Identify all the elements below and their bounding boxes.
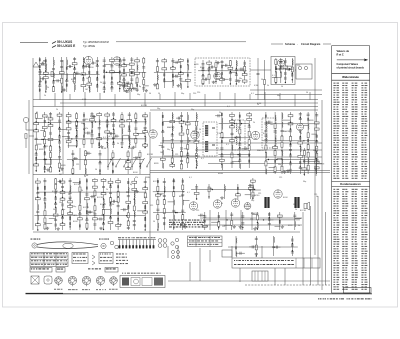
resistor R205.8 [265, 161, 267, 166]
svg-text:EL84: EL84 [133, 172, 137, 174]
svg-text:Typ 1959/56W/UKW/FM: Typ 1959/56W/UKW/FM [83, 41, 109, 44]
capacitor C101.17x [57, 79, 58, 82]
capacitor C102.34h [137, 84, 138, 87]
capacitor C205.37 [299, 124, 302, 125]
capacitor C201.31h [59, 141, 60, 144]
capacitor C207.9h [99, 169, 100, 172]
capacitor C205.28h [290, 129, 291, 132]
capacitor C104.6 [208, 69, 211, 70]
capacitor C101.12x [42, 62, 43, 65]
capacitor C205.34h [290, 169, 291, 172]
wire [134, 191, 139, 193]
capacitor C201.7h [36, 158, 37, 161]
IF transformer dashed box 1 [203, 122, 217, 156]
resistor R301.58 [86, 223, 88, 228]
capacitor C204.17 [231, 162, 234, 163]
svg-text:50: 50 [84, 176, 86, 178]
inductor L301.5 [37, 205, 40, 210]
wire [307, 112, 309, 174]
capacitor C103.20h [187, 74, 188, 77]
wire [273, 236, 275, 256]
svg-text:30p: 30p [72, 81, 75, 83]
wire [173, 178, 175, 230]
capacitor C301.19h [55, 191, 56, 194]
inductor L204.21 [239, 136, 242, 141]
IF coil 2a [236, 123, 237, 132]
wire [133, 178, 135, 230]
capacitor C301.106x [136, 190, 137, 193]
inductor L202.40 [113, 129, 116, 134]
wire [301, 124, 308, 126]
wire [218, 212, 220, 230]
resistor R302.6 [157, 215, 159, 220]
wire [39, 92, 41, 100]
capacitor C305.6 [255, 253, 258, 254]
capacitor C301.91h [128, 181, 129, 184]
resistor R301.29h [60, 198, 65, 200]
wire [195, 149, 322, 151]
inductor L301.104 [133, 212, 136, 217]
ground [60, 167, 64, 170]
svg-text:10n: 10n [62, 209, 65, 211]
capacitor C202.11 [75, 137, 78, 138]
capacitor C205.16h [275, 160, 276, 163]
svg-text:30p: 30p [137, 94, 140, 96]
resistor R102.36 [143, 58, 145, 63]
svg-text:125: 125 [279, 177, 282, 179]
wire [234, 136, 239, 138]
resistor R204.28h [247, 118, 252, 120]
tube V7 EF89 [191, 131, 199, 139]
wire [39, 74, 100, 76]
svg-text:EF89: EF89 [309, 120, 314, 122]
inductor L101.23 [66, 60, 69, 65]
resistor R204.14h [230, 140, 235, 142]
wire [279, 93, 281, 100]
IF transformer dashed box 3 [262, 118, 276, 148]
capacitor C202.42x [116, 135, 117, 138]
capacitor C103.14h [180, 65, 181, 68]
capacitor C301.64 [93, 214, 96, 215]
svg-text:50: 50 [281, 86, 283, 88]
resistor R202.58h [134, 133, 139, 135]
svg-text:ECC85: ECC85 [97, 197, 103, 199]
wire [53, 57, 55, 92]
resistor R301.59h [93, 179, 98, 181]
capacitor C301.66x [92, 195, 93, 198]
capacitor C202.53h [129, 136, 130, 139]
wire vertical x315 [314, 58, 316, 255]
bus line AGC double [150, 170, 330, 172]
svg-text:5k: 5k [210, 188, 212, 190]
idler wheels [110, 241, 114, 245]
resistor R102.39 [143, 80, 145, 85]
IF coil 2b [236, 136, 237, 145]
capacitor C301.57 [85, 219, 88, 220]
wire [174, 92, 176, 106]
wire [172, 58, 174, 88]
wire [252, 178, 254, 200]
capacitor C102.4h [104, 75, 105, 78]
resistor R205.55h [314, 122, 319, 124]
wire [131, 148, 133, 170]
capacitor C202.30h [99, 143, 100, 146]
capacitor C201.18 [49, 114, 52, 115]
wire [85, 152, 91, 154]
IF transformer dashed box 2 [232, 120, 245, 150]
resistor R301.69h [101, 193, 106, 195]
ground [128, 87, 132, 90]
svg-text:ECC85: ECC85 [141, 105, 147, 107]
capacitor C204.34x [245, 147, 246, 150]
capacitor C204.33h [249, 154, 250, 157]
table capacitor rows col 2 [342, 189, 348, 290]
svg-text:50: 50 [153, 221, 155, 223]
resistor R202.3h [66, 128, 71, 130]
capacitor C301.111h [145, 206, 146, 209]
inductor L301.45 [79, 192, 82, 197]
capacitor C303.17 [293, 215, 296, 216]
capacitor C208.2h [304, 160, 305, 163]
capacitor C201.21h [50, 132, 51, 135]
inductor L203.34 [195, 114, 198, 119]
svg-text:125: 125 [175, 154, 178, 156]
wire [236, 252, 245, 254]
wire vertical x63 [62, 60, 64, 174]
resistor R203.35 [195, 121, 197, 126]
capacitor C104.18x [226, 64, 227, 67]
capacitor C102.28 [130, 79, 133, 80]
svg-text:50: 50 [53, 209, 55, 211]
capacitor C102.12 [110, 88, 113, 89]
svg-text:5k: 5k [73, 215, 75, 217]
inductor L102.23 [123, 82, 126, 87]
svg-text:2k: 2k [300, 133, 302, 135]
svg-text:ECC85: ECC85 [83, 207, 89, 209]
capacitor C205.12 [274, 131, 277, 132]
wire heater run [168, 280, 330, 282]
capacitor C305.9h [292, 239, 293, 242]
capacitor C207.1 [71, 153, 74, 154]
inductor L202.36 [106, 143, 109, 148]
resistor R205.59 [316, 146, 318, 151]
capacitor C301.90x [114, 200, 115, 203]
capacitor C301.34 [69, 180, 72, 181]
wire [180, 80, 188, 82]
antenna terminal 2 [41, 60, 47, 65]
capacitor C102.10h [111, 77, 112, 80]
resistor R205.21 [281, 136, 283, 141]
wire [68, 145, 77, 147]
power supply contents [234, 260, 294, 265]
capacitor C101.16h [53, 81, 54, 84]
svg-text:5k: 5k [267, 85, 269, 87]
wire [316, 112, 318, 174]
capacitor C203.1h [162, 115, 163, 118]
capacitor C207.3x [75, 157, 76, 160]
capacitor C301.53 [85, 194, 88, 195]
resistor R202.1h [66, 115, 71, 117]
ground [144, 89, 148, 92]
svg-text:250: 250 [222, 226, 225, 228]
resistor R204.4 [221, 133, 223, 138]
capacitor C203.12 [171, 135, 174, 136]
capacitor C101.19 [60, 66, 63, 67]
capacitor C203.22 [180, 141, 183, 142]
svg-text:EL84: EL84 [89, 67, 93, 69]
resistor R301.17 [55, 179, 57, 184]
capacitor C101.24h [66, 67, 67, 70]
capacitor C203.5 [161, 146, 164, 147]
wire [72, 150, 74, 174]
inductor L205.18 [281, 113, 284, 118]
capacitor C202.5h [68, 136, 69, 139]
wire [137, 133, 145, 135]
left margin part [25, 134, 27, 139]
svg-text:ECC85: ECC85 [52, 191, 58, 193]
resistor R203.28h [185, 123, 190, 125]
wire [303, 161, 320, 163]
svg-text:0,1: 0,1 [175, 75, 178, 77]
svg-text:EL84: EL84 [283, 197, 287, 199]
resistor R201.22h [48, 138, 53, 140]
capacitor C203.25 [180, 160, 183, 161]
capacitor C301.42h [70, 222, 71, 225]
resistor R202.2h [66, 121, 71, 123]
inductor L306.4 [224, 186, 227, 191]
capacitor C304.3x [250, 184, 251, 187]
keyboard switch bank [118, 240, 156, 249]
resistor R104.5h [207, 62, 212, 64]
inductor L205.24 [281, 159, 284, 164]
bus line 4 [150, 109, 318, 111]
title lead line [20, 41, 48, 43]
svg-text:Kondensatoren: Kondensatoren [340, 182, 361, 186]
capacitor C301.113h [145, 218, 146, 221]
wire [103, 178, 105, 230]
wire [235, 236, 237, 256]
capacitor C301.11h [44, 193, 45, 196]
wire [50, 112, 52, 172]
capacitor C102.18 [123, 59, 126, 60]
resistor R205.27h [288, 123, 293, 125]
tube V6 EF89 [149, 130, 157, 138]
capacitor C204.29 [248, 126, 251, 127]
resistor R205.61h [314, 161, 319, 163]
resistor R101.10h [43, 77, 48, 79]
terminal strip [172, 251, 180, 259]
wire [36, 117, 43, 119]
capacitor C207.8 [99, 163, 102, 164]
wire [102, 209, 110, 211]
resistor R301.78 [110, 198, 112, 203]
svg-text:2k: 2k [47, 87, 49, 89]
wire [83, 58, 90, 60]
capacitor C205.30 [289, 145, 292, 146]
wire [250, 69, 271, 71]
capacitor C301.12 [43, 199, 46, 200]
resistor R207.3 [72, 169, 74, 174]
wire [266, 121, 273, 123]
wire [67, 159, 144, 161]
ground [286, 169, 290, 172]
capacitor C201.28h [59, 120, 60, 123]
svg-text:30p: 30p [278, 164, 281, 166]
capacitor C204.24h [239, 154, 240, 157]
svg-text:EF89: EF89 [61, 165, 66, 167]
svg-text:5k: 5k [59, 131, 61, 133]
wire [198, 214, 205, 216]
IF coil 3a [266, 121, 267, 130]
svg-text:0,5M: 0,5M [199, 222, 204, 224]
wire [167, 246, 169, 258]
resistor R104.8 [215, 63, 217, 68]
capacitor C301.79h [110, 203, 111, 206]
capacitor C301.24 [54, 219, 57, 220]
wire [163, 178, 165, 230]
capacitor C205.38h [300, 130, 301, 133]
capacitor C301.98x [124, 208, 125, 211]
capacitor C103.11h [172, 75, 173, 78]
inductor L203.30 [187, 137, 190, 142]
title arrow mark [52, 42, 56, 48]
wire [299, 112, 301, 174]
tube V13 EM84 [274, 190, 282, 198]
inductor L203.8 [162, 163, 165, 168]
svg-text:50: 50 [199, 129, 201, 131]
svg-text:47k: 47k [135, 177, 138, 179]
IF coil 1a [205, 125, 208, 136]
inductor L207.6 [84, 168, 87, 173]
capacitor C104.7x [211, 66, 212, 69]
wire [209, 66, 215, 68]
capacitor C202.13h [83, 114, 84, 117]
svg-text:59 LUXUS E: 59 LUXUS E [57, 44, 75, 48]
ferrite antenna box [296, 64, 312, 79]
wire [99, 150, 101, 174]
inductor L301.13 [44, 203, 47, 208]
svg-text:30p: 30p [238, 127, 241, 129]
capacitor C202.4 [67, 132, 70, 133]
mains transformer T2 [294, 197, 299, 208]
wire [37, 159, 62, 161]
wire [29, 135, 34, 137]
wire [110, 200, 118, 202]
inductor L301.35 [69, 186, 72, 191]
resistor R205.11 [274, 124, 276, 129]
wire [66, 57, 68, 92]
inductor L304.2 [252, 185, 255, 190]
capacitor C301.89h [118, 219, 119, 222]
wire [119, 57, 121, 92]
wire [69, 178, 71, 230]
capacitor C101.2h [39, 65, 40, 68]
capacitor C204.34h [249, 160, 250, 163]
capacitor C301.20h [55, 197, 56, 200]
capacitor C207.7 [99, 154, 102, 155]
resistor R303.5 [218, 222, 220, 227]
capacitor C101.33x [77, 72, 78, 75]
legend box 3 [99, 253, 113, 264]
capacitor C105.8h [285, 60, 286, 63]
svg-text:1M: 1M [59, 174, 62, 176]
wire [132, 88, 137, 90]
capacitor C202.37h [113, 113, 114, 116]
wire [127, 150, 129, 174]
capacitor C103.9 [171, 61, 174, 62]
capacitor C301.98 [127, 227, 130, 228]
voltage table rows [189, 237, 220, 245]
capacitor C204.18h [239, 115, 240, 118]
capacitor C102.13h [119, 59, 120, 62]
resistor R101.21 [61, 78, 63, 83]
resistor R102.29 [131, 84, 133, 89]
resistor R203.31 [187, 145, 189, 150]
resistor R204.11h [230, 120, 235, 122]
wire [182, 178, 184, 230]
wire [245, 194, 251, 196]
capacitor C301.6 [36, 211, 39, 212]
resistor R301.63 [94, 206, 96, 211]
wire [37, 191, 146, 193]
resistor R205.15 [274, 151, 276, 156]
capacitor C301.95h [128, 206, 129, 209]
wire [49, 218, 56, 220]
svg-text:EM84: EM84 [218, 173, 223, 175]
resistor R102.26h [129, 69, 134, 71]
resistor R305.5 [255, 245, 257, 250]
wire [183, 200, 190, 202]
svg-text:125: 125 [250, 219, 253, 221]
capacitor C301.51h [86, 179, 87, 182]
ground [100, 145, 104, 148]
capacitor C301.106 [133, 225, 136, 226]
resistor R202.20h [90, 119, 95, 121]
wire [121, 112, 123, 148]
inductor L202.35 [106, 135, 109, 140]
svg-text:EF89: EF89 [154, 163, 159, 165]
wire [209, 210, 211, 230]
wire [54, 80, 62, 82]
resistor R207.15h [126, 168, 131, 170]
capacitor C102.11 [110, 83, 113, 84]
capacitor C302.14h [164, 222, 165, 225]
wire [282, 119, 291, 121]
resistor R58 [263, 80, 265, 85]
inductor L202.54 [128, 140, 131, 145]
resistor R102.33 [136, 78, 138, 83]
svg-text:50: 50 [149, 93, 151, 95]
capacitor C104.13h [221, 72, 222, 75]
inductor L102.31 [136, 65, 139, 70]
wire [124, 82, 132, 84]
resistor R201.27h [57, 114, 62, 116]
inductor L202.10 [76, 130, 79, 135]
wire [264, 92, 266, 106]
wire [231, 246, 233, 258]
ground [153, 83, 157, 86]
capacitor C303.9 [241, 223, 244, 224]
capacitor C204.6 [220, 148, 223, 149]
wire [257, 58, 259, 100]
capacitor C102.2 [103, 65, 106, 66]
svg-text:125: 125 [142, 116, 145, 118]
resistor R204.20 [239, 129, 241, 134]
wire vertical x150 [149, 112, 151, 245]
wire [237, 184, 239, 199]
wire [34, 215, 145, 217]
resistor R302.17 [173, 192, 175, 197]
